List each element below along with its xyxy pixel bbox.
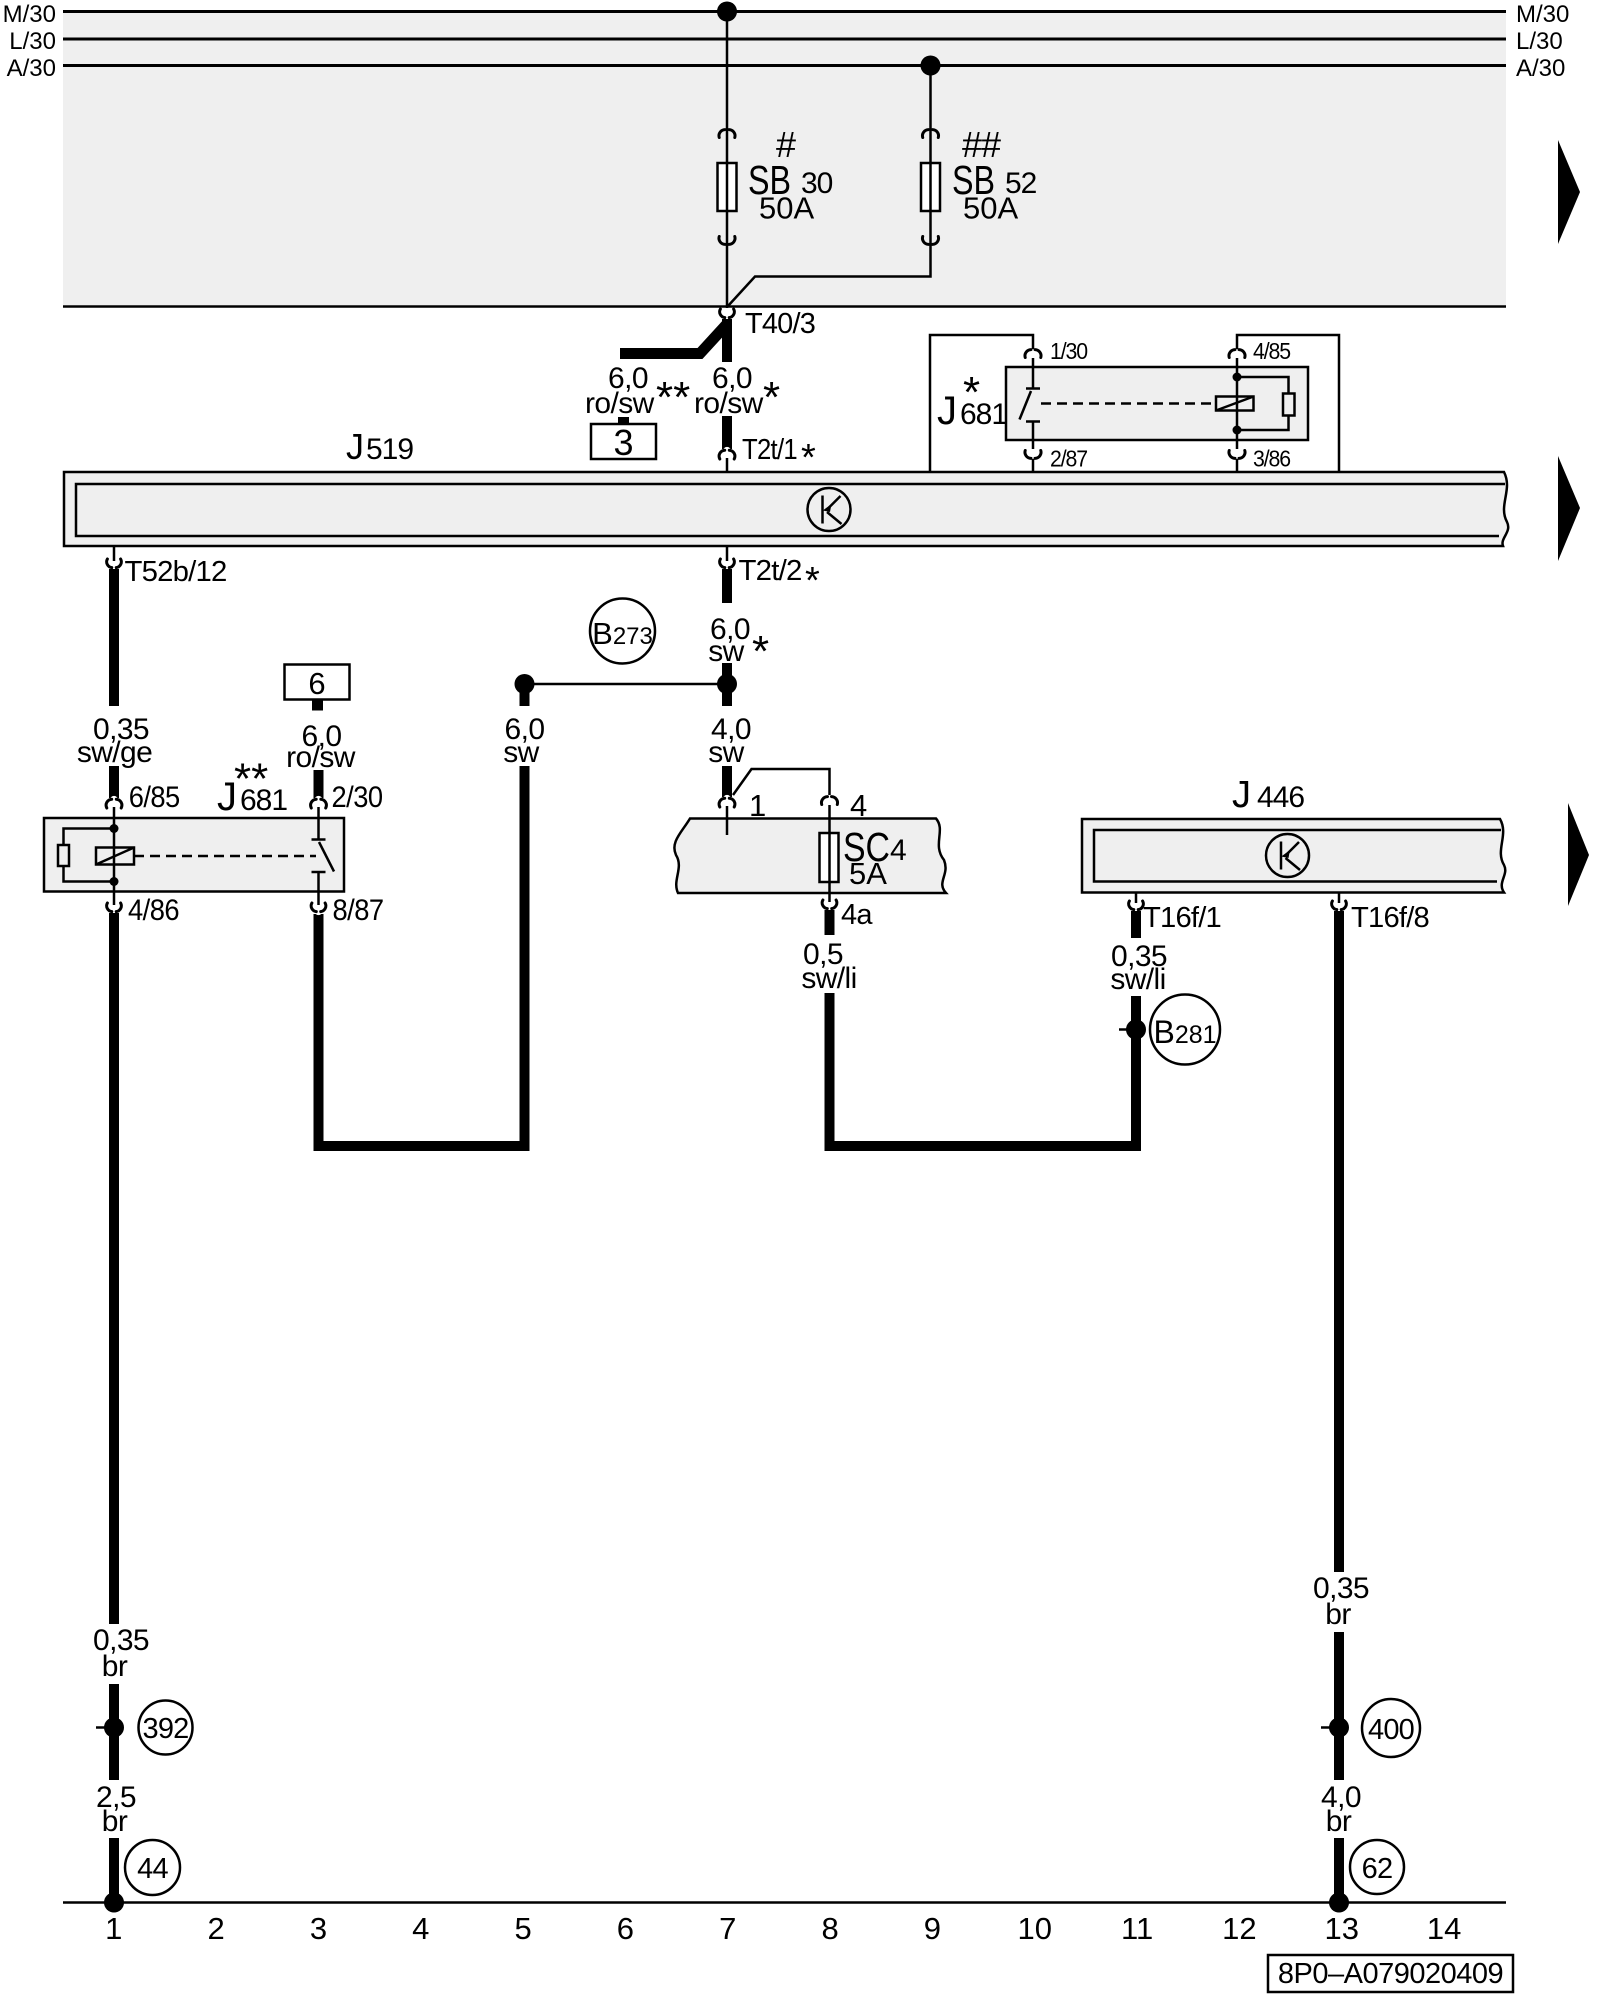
svg-text:11: 11 <box>1121 1911 1153 1946</box>
svg-text:br: br <box>1325 1598 1351 1631</box>
svg-text:*: * <box>752 627 769 676</box>
svg-text:392: 392 <box>143 1713 189 1745</box>
svg-text:T16f/1: T16f/1 <box>1143 902 1221 934</box>
wire 6,0 ro/sw vertical T40/3 to T2t/1 <box>722 319 732 449</box>
rail M/30 <box>63 10 1506 13</box>
svg-text:L/30: L/30 <box>1516 28 1563 55</box>
svg-text:J: J <box>937 389 957 433</box>
svg-text:br: br <box>102 1650 128 1683</box>
fuse SC4 body <box>820 833 839 882</box>
svg-text:**: ** <box>656 373 690 422</box>
relay J681* pin 2/87 <box>1025 451 1041 459</box>
svg-text:sw/li: sw/li <box>1110 963 1165 996</box>
relay J681* coil dots <box>1233 373 1242 382</box>
wire A/30 to fuse SB52 <box>728 66 931 307</box>
relay J681** pin 6/85 <box>106 796 122 808</box>
svg-text:sw/li: sw/li <box>801 962 856 995</box>
relay J681* pin 3/86 <box>1229 451 1245 459</box>
ground line <box>63 1901 1506 1904</box>
junction dot right <box>717 674 737 694</box>
svg-text:62: 62 <box>1362 1853 1393 1885</box>
svg-text:1/30: 1/30 <box>1050 338 1087 364</box>
svg-text:13: 13 <box>1325 1911 1359 1946</box>
SC4 fuse line <box>828 818 831 893</box>
wire 6,0 sw <box>722 569 732 684</box>
relay J681** pin 2/30 <box>311 796 327 808</box>
relay J681* box <box>1006 367 1308 440</box>
rail A/30 <box>63 64 1506 67</box>
relay J681** coil line <box>113 818 116 892</box>
label 0,35 sw/ge <box>72 706 156 769</box>
relay J681** coil <box>96 848 134 865</box>
SC4 fuse panel band <box>674 819 946 894</box>
fuse SB52 top clip <box>922 130 938 138</box>
svg-text:3: 3 <box>310 1911 327 1946</box>
SC4 pin 4a <box>828 893 831 902</box>
fuse SB52 body <box>921 163 940 211</box>
svg-text:8: 8 <box>821 1911 838 1946</box>
junction dot left <box>515 674 535 694</box>
relay J681** dashed link <box>134 855 316 858</box>
continuation arrow J519 <box>1558 456 1580 561</box>
svg-text:50A: 50A <box>759 191 814 226</box>
svg-text:8P0–A079020409: 8P0–A079020409 <box>1278 1958 1503 1990</box>
relay J681* dashed link <box>1041 402 1215 405</box>
svg-text:sw: sw <box>708 736 744 769</box>
svg-text:14: 14 <box>1427 1911 1461 1946</box>
junction 400 <box>1321 1699 1420 1757</box>
ground 44 circle <box>125 1840 180 1895</box>
ground 62 circle <box>1350 1840 1404 1894</box>
label 6,0 ro/sw* <box>694 362 788 422</box>
svg-text:681: 681 <box>960 398 1007 431</box>
svg-text:J: J <box>217 775 237 819</box>
svg-text:sw: sw <box>503 736 539 769</box>
fuse SB30 label <box>748 124 833 226</box>
svg-text:7: 7 <box>719 1911 736 1946</box>
svg-text:6: 6 <box>617 1911 634 1946</box>
relay J681** box <box>44 818 344 892</box>
svg-text:sw/ge: sw/ge <box>77 736 152 769</box>
svg-text:A/30: A/30 <box>1516 55 1565 82</box>
svg-text:9: 9 <box>924 1911 941 1946</box>
J446 parking aid control unit box <box>1082 819 1505 893</box>
continuation arrow top <box>1558 140 1580 244</box>
svg-text:T40/3: T40/3 <box>745 308 815 340</box>
svg-text:3: 3 <box>613 422 633 463</box>
svg-text:6/85: 6/85 <box>129 781 180 814</box>
rail labels right <box>1516 1 1569 82</box>
ground dot 44 <box>104 1893 124 1913</box>
connector T2t/2 <box>726 546 729 561</box>
label 6,0 sw * <box>702 603 769 676</box>
svg-text:446: 446 <box>1257 781 1304 814</box>
SC4 jumper bracket <box>733 769 830 795</box>
wire M/30 to fuse SB30 <box>726 12 729 309</box>
fuse SB30 body <box>718 163 737 211</box>
band bottom border <box>63 305 1506 308</box>
wire 0,35 br / 2,5 br to ground 44 <box>109 913 119 1902</box>
wire 0,35 sw/li T16f/1 <box>1131 911 1141 1030</box>
svg-text:2: 2 <box>207 1911 224 1946</box>
fuse SB30 top clip <box>719 130 735 138</box>
J519 K symbol <box>808 488 851 531</box>
label 0,35 sw/li <box>1103 938 1171 996</box>
relay J681* label <box>937 368 1007 433</box>
svg-text:M/30: M/30 <box>1516 1 1569 28</box>
rail labels left <box>3 1 56 82</box>
svg-text:A/30: A/30 <box>7 55 56 82</box>
J519 label <box>346 426 413 467</box>
svg-text:4/86: 4/86 <box>128 894 179 927</box>
splice junction line <box>525 683 728 686</box>
continuation arrow J446 <box>1568 803 1589 906</box>
rail L/30 <box>63 38 1506 41</box>
svg-text:J: J <box>346 426 364 467</box>
fuse SB52 bottom clip <box>922 237 938 245</box>
svg-text:ro/sw: ro/sw <box>585 387 655 420</box>
relay J681* switch <box>1020 358 1041 449</box>
relay J681* coil <box>1216 397 1254 411</box>
J446 label <box>1232 774 1304 816</box>
wire 0,35 br / 4,0 br to ground 62 <box>1334 911 1344 1902</box>
relay J681** pin 4/86 <box>113 892 116 906</box>
wire 0,35 sw/ge <box>109 569 119 798</box>
J446 inner border <box>1094 830 1501 882</box>
connector T2t/1 <box>719 447 735 459</box>
svg-text:T16f/8: T16f/8 <box>1351 902 1429 934</box>
svg-text:4/85: 4/85 <box>1253 338 1290 364</box>
svg-text:3/86: 3/86 <box>1253 446 1290 472</box>
label 4,0 sw <box>700 706 764 769</box>
svg-text:50A: 50A <box>963 191 1018 226</box>
junction dot on A/30 <box>921 56 941 76</box>
svg-text:4: 4 <box>890 834 906 867</box>
label 6,0 sw (track5) <box>496 706 554 769</box>
svg-text:10: 10 <box>1018 1911 1052 1946</box>
J446 pin T16f/8 <box>1338 893 1341 904</box>
svg-text:681: 681 <box>240 784 287 817</box>
label 0,35 br <box>86 1624 156 1684</box>
relay J681* pin 4/85 <box>1229 350 1245 358</box>
SC4 pin1 stub <box>726 818 729 835</box>
relay J681** coil dots <box>110 824 119 833</box>
J519 inner border <box>76 484 1505 536</box>
svg-text:ro/sw: ro/sw <box>286 741 356 774</box>
svg-text:L/30: L/30 <box>9 28 56 55</box>
relay J681* bracket right <box>1237 335 1339 472</box>
svg-text:br: br <box>102 1805 128 1838</box>
SC4 pin 4 <box>821 797 837 805</box>
splice B273 circle <box>590 599 655 664</box>
wire 6,0 ro/sw <box>314 770 324 798</box>
connector T40/3 <box>720 309 735 321</box>
svg-text:*: * <box>805 560 820 602</box>
svg-text:J: J <box>1232 774 1251 816</box>
label 0,35 br right <box>1306 1572 1376 1632</box>
reference box 3 <box>591 417 656 463</box>
J446 pin T16f/1 <box>1135 893 1138 904</box>
relay J681** parallel resistor <box>58 829 114 882</box>
svg-text:5: 5 <box>514 1911 531 1946</box>
wire 6,0 sw down-left <box>319 684 525 1146</box>
relay J681** pin 8/87 <box>317 892 320 906</box>
svg-text:2/30: 2/30 <box>332 781 383 814</box>
junction dot on M/30 <box>717 2 737 22</box>
fuse SB30 bottom clip <box>719 237 735 245</box>
svg-text:8/87: 8/87 <box>333 894 384 927</box>
label 0,5 sw/li <box>793 935 865 995</box>
label 2,5 br <box>88 1780 144 1838</box>
svg-text:ro/sw: ro/sw <box>694 387 764 420</box>
reference box 6 <box>285 665 350 711</box>
svg-text:4a: 4a <box>841 899 873 931</box>
svg-text:44: 44 <box>137 1853 168 1885</box>
label 6,0 ro/sw <box>286 720 356 774</box>
J519 onboard supply control unit box <box>64 472 1508 546</box>
relay J681* parallel resistor <box>1237 377 1295 430</box>
svg-text:4: 4 <box>412 1911 429 1946</box>
svg-text:T2t/1: T2t/1 <box>742 434 797 466</box>
relay J681* coil line <box>1236 358 1239 449</box>
svg-text:400: 400 <box>1368 1714 1414 1746</box>
connector T52b/12 <box>113 546 116 561</box>
svg-text:T2t/2: T2t/2 <box>739 555 802 587</box>
svg-text:2/87: 2/87 <box>1050 446 1087 472</box>
svg-text:*: * <box>763 373 780 422</box>
splice B281 <box>1119 995 1220 1065</box>
battery rail band <box>63 12 1506 305</box>
J446 K symbol <box>1266 834 1309 877</box>
junction 392 <box>96 1701 193 1755</box>
relay J681* pin 1/30 <box>1025 350 1041 358</box>
svg-text:T52b/12: T52b/12 <box>125 556 227 588</box>
svg-text:12: 12 <box>1222 1911 1256 1946</box>
svg-text:1: 1 <box>105 1911 122 1946</box>
track numbers <box>105 1911 1461 1946</box>
wire 4,0 sw to SC4 <box>722 684 732 797</box>
relay J681** label <box>217 755 287 820</box>
svg-text:M/30: M/30 <box>3 1 56 28</box>
svg-text:br: br <box>1326 1805 1352 1838</box>
svg-text:6: 6 <box>308 666 325 701</box>
svg-text:5A: 5A <box>849 856 887 891</box>
label 4,0 br <box>1311 1780 1369 1838</box>
ground dot 62 <box>1329 1893 1349 1913</box>
svg-text:519: 519 <box>366 433 413 466</box>
wire stub 6,0 ro/sw** elbow <box>620 324 727 354</box>
fuse SB52 label <box>952 124 1037 226</box>
label 6,0 ro/sw** <box>585 362 690 422</box>
svg-text:sw: sw <box>708 635 744 668</box>
part number box <box>1268 1955 1513 1992</box>
relay J681** switch <box>312 818 335 892</box>
wire 0,5 sw/li <box>830 910 1137 1146</box>
SC4 label <box>843 824 906 891</box>
SC4 pin 1 <box>719 795 735 807</box>
relay J681* bracket left <box>930 335 1033 472</box>
